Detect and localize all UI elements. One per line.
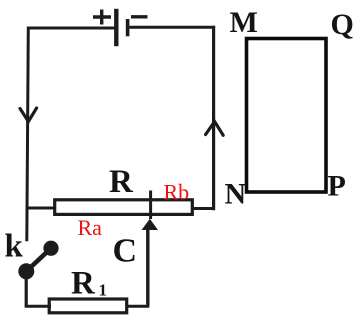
svg-text:k: k [5,229,24,265]
svg-text:R: R [109,164,134,200]
svg-text:1: 1 [99,280,108,299]
svg-text:Q: Q [331,8,354,41]
svg-text:Ra: Ra [78,215,103,240]
svg-text:R: R [71,266,96,302]
svg-text:M: M [230,6,258,39]
svg-text:P: P [328,170,346,203]
svg-text:N: N [225,178,247,211]
svg-text:C: C [113,233,138,270]
svg-text:Rb: Rb [164,179,190,204]
